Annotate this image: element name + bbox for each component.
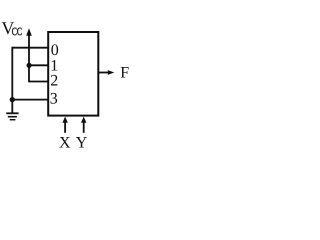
svg-text:Y: Y bbox=[76, 134, 88, 151]
wire: output F from box bbox=[98, 72, 109, 74]
svg-text:3: 3 bbox=[50, 91, 58, 108]
pin label 0 bbox=[51, 42, 59, 59]
node X label bbox=[59, 135, 71, 152]
select input Y arrow bbox=[81, 117, 86, 133]
junction dot on Vcc rail at input 1 bbox=[27, 63, 32, 68]
wire: input 0 from ground rail to pin 0 bbox=[12, 47, 48, 49]
svg-text:2: 2 bbox=[50, 72, 58, 89]
wire: input 1 from Vcc rail to pin 1 bbox=[29, 64, 48, 66]
svg-text:0: 0 bbox=[51, 42, 59, 59]
ground symbol bbox=[6, 113, 18, 119]
junction dot on ground rail at input 3 bbox=[10, 97, 15, 102]
pin label 1 bbox=[50, 57, 58, 74]
wire: Vcc rail down from arrow, corner to input 2 bbox=[29, 35, 48, 82]
pin label 2 bbox=[50, 72, 58, 89]
svg-text:F: F bbox=[120, 64, 129, 81]
Vcc label bbox=[1, 18, 22, 38]
pin label 3 bbox=[50, 91, 58, 108]
select input X arrow bbox=[62, 117, 67, 133]
node F label bbox=[120, 64, 129, 81]
multiplexer U1 (4-to-1 MUX body) bbox=[48, 32, 98, 116]
node Y label bbox=[76, 134, 88, 151]
Vcc power symbol (arrow up) bbox=[26, 28, 32, 36]
svg-text:X: X bbox=[59, 135, 71, 152]
svg-text:CC: CC bbox=[12, 26, 22, 38]
output arrowhead bbox=[108, 70, 114, 75]
wire: ground rail (left vertical) bbox=[11, 47, 13, 114]
wire: input 3 from ground rail to pin 3 bbox=[12, 99, 48, 101]
